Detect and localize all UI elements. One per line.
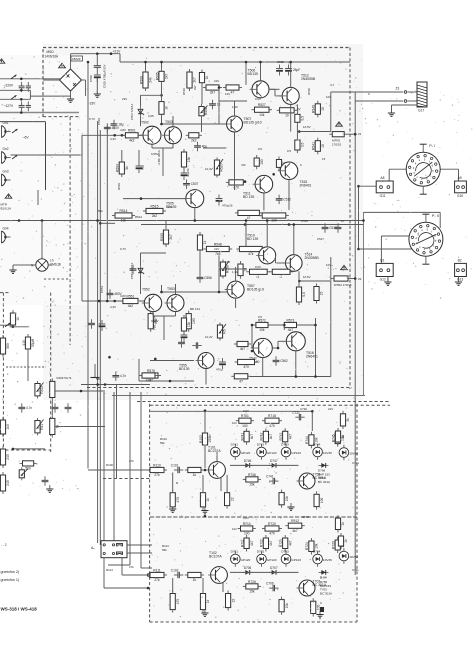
svg-text:G12: G12 <box>380 278 386 282</box>
junction rail2 T514 <box>293 223 296 226</box>
junction osc out 1 <box>80 390 83 393</box>
svg-text:470µ: 470µ <box>216 368 223 372</box>
transistor T505 <box>166 190 204 209</box>
svg-text:C556: C556 <box>204 276 212 280</box>
svg-text:C706: C706 <box>266 582 274 586</box>
label texture 26 <box>326 263 331 267</box>
svg-text:2k2: 2k2 <box>191 139 196 143</box>
label texture 4 <box>151 152 159 156</box>
resistor R528 <box>277 108 298 118</box>
label zener TZK <box>130 103 134 120</box>
label BD 13x <box>190 307 200 311</box>
tap symbol lower left <box>91 364 100 378</box>
warning triangle psu <box>59 63 66 68</box>
wire R102 column top <box>204 411 206 430</box>
wire ch2 low vertical <box>116 385 118 479</box>
svg-text:GP120: GP120 <box>267 558 277 562</box>
wire T506 T512 link <box>269 88 280 90</box>
choke Dl1 50uH <box>22 334 35 352</box>
svg-text:R714: R714 <box>243 522 251 526</box>
svg-text:C507: C507 <box>191 182 199 186</box>
junction rail2 R549 <box>245 219 248 222</box>
svg-text:0,7V: 0,7V <box>89 117 95 121</box>
capacitor C509 electrolytic <box>285 65 300 76</box>
wire ch1 driver link <box>234 160 236 190</box>
wire lamp branch <box>41 221 43 259</box>
svg-text:R573: R573 <box>286 318 294 322</box>
svg-text:C516: C516 <box>301 219 308 223</box>
junction psu rail a <box>96 52 99 55</box>
label note magnetofon 2 <box>1 570 20 574</box>
label texture 6 <box>193 85 197 90</box>
resistor R111 <box>147 568 167 582</box>
svg-text:T503: T503 <box>165 120 173 124</box>
wire T516 drop <box>295 351 297 377</box>
socket DIN input 1 <box>2 121 11 138</box>
capacitor C437 <box>112 372 126 381</box>
label D7xx b <box>320 576 327 580</box>
wire relay feed 4 <box>140 392 142 568</box>
svg-text:R505: R505 <box>155 72 159 80</box>
svg-text:R548: R548 <box>214 242 222 246</box>
label texture 32 <box>98 209 103 213</box>
transistor T557 driver <box>225 281 264 298</box>
junction ch2 low node2 <box>108 356 111 359</box>
svg-text:50µH: 50µH <box>31 338 35 347</box>
resistor R556 <box>197 232 207 253</box>
svg-text:0,65V: 0,65V <box>151 152 159 156</box>
diode D704 <box>313 550 332 567</box>
zener diode C503 <box>138 107 144 117</box>
svg-text:T553: T553 <box>167 287 175 291</box>
wire fuse2 out <box>351 278 355 280</box>
resistor R437 <box>20 461 37 471</box>
svg-text:50µ: 50µ <box>141 165 145 170</box>
junction sw wire a <box>362 219 365 222</box>
junction ch2 output <box>298 280 301 283</box>
wire +21V rail psu <box>71 53 121 55</box>
label lamp N <box>31 264 34 268</box>
resistor R548 <box>203 242 232 256</box>
junction T557 base feed <box>160 291 163 294</box>
wire collector T512 <box>290 104 292 131</box>
diode D743 <box>281 443 301 460</box>
svg-text:2k7: 2k7 <box>193 85 197 90</box>
label texture 44 <box>176 481 178 485</box>
wire fuse out <box>347 133 355 135</box>
junction bus e <box>106 300 109 303</box>
diode D706 <box>243 566 253 575</box>
resistor R523 <box>276 157 286 171</box>
capacitor C567 electrolytic <box>181 331 188 342</box>
label D7xx BAP <box>318 469 326 473</box>
svg-text:0,5: 0,5 <box>301 143 305 148</box>
input selector box top <box>0 121 46 123</box>
transistor T507 driver <box>224 116 262 132</box>
svg-text:R751: R751 <box>241 414 249 418</box>
junction T507 base feed <box>160 123 163 126</box>
label 4.8V b <box>120 294 126 298</box>
resistor R549 <box>236 246 265 256</box>
junction row1 sep <box>204 515 207 518</box>
wire R517 drop <box>245 62 247 85</box>
svg-text:27k: 27k <box>129 459 134 463</box>
wire emitter join ch2 l <box>152 312 154 316</box>
svg-text:7k5: 7k5 <box>215 252 220 256</box>
resistor R415 <box>10 310 20 328</box>
svg-text:10V36: 10V36 <box>349 452 358 456</box>
dash-dot control line <box>6 366 46 368</box>
wire psu cap gnd <box>96 78 98 93</box>
label C551 <box>100 285 104 293</box>
junction ch1 low c <box>194 219 197 222</box>
capacitor C101 <box>171 464 184 474</box>
svg-text:R110: R110 <box>153 463 161 467</box>
svg-text:Pₓ I: Pₓ I <box>429 144 435 148</box>
label BAP153 r2 <box>320 584 331 588</box>
svg-text:BC107A: BC107A <box>209 554 222 558</box>
diode D742 <box>257 443 277 460</box>
capacitor C508 electrolytic <box>276 65 283 76</box>
dashed border oscillator box left <box>2 293 4 450</box>
svg-text:R520: R520 <box>220 163 224 171</box>
transistor T102 <box>208 551 227 583</box>
transistor T555 <box>179 353 214 371</box>
svg-text:27k: 27k <box>154 473 160 477</box>
wire sw1 left drop <box>388 169 390 181</box>
label texture 30 <box>258 315 262 319</box>
wire ch2 low loop h <box>139 380 194 382</box>
svg-text:15k: 15k <box>249 483 255 487</box>
svg-text:0,6V: 0,6V <box>255 97 261 101</box>
svg-text:D-04: D-04 <box>320 576 327 580</box>
svg-text:R555: R555 <box>160 233 164 241</box>
resistor R578 <box>181 315 191 334</box>
label texture 45 <box>232 421 237 425</box>
label C560 value <box>216 368 223 372</box>
svg-text:10n: 10n <box>232 527 237 531</box>
svg-text:C502 4700µF/25V: C502 4700µF/25V <box>103 64 107 88</box>
label lamp Lh <box>50 259 54 263</box>
svg-text:10k: 10k <box>259 113 265 117</box>
resistor R409 <box>50 378 55 400</box>
svg-text:1,3V: 1,3V <box>232 105 238 109</box>
capacitor C422 <box>52 403 59 412</box>
resistor R748 <box>314 491 324 509</box>
junction ch2 low a <box>96 383 99 386</box>
svg-text:C: C <box>300 163 302 167</box>
ground rec row1 <box>287 503 294 510</box>
wire emitter bus <box>152 147 173 149</box>
svg-text:C731: C731 <box>352 461 359 465</box>
svg-text:4,7n: 4,7n <box>120 374 126 378</box>
transistor T753 <box>297 473 327 490</box>
wire zener2 link <box>141 252 167 254</box>
wire osc top link <box>0 324 13 326</box>
svg-text:R111: R111 <box>153 568 161 572</box>
capacitor C512 <box>276 195 291 204</box>
fuse B1A output 2 <box>331 276 351 281</box>
label texture 55 <box>317 237 324 241</box>
label texture 37 <box>300 407 307 411</box>
label 14V b <box>225 260 230 264</box>
svg-text:1: 1 <box>280 275 282 279</box>
wire T506 top <box>260 62 262 81</box>
wire R504 top <box>121 150 123 159</box>
svg-text:Gn3: Gn3 <box>3 170 9 174</box>
wire emitter join right <box>172 144 174 148</box>
svg-text:470: 470 <box>269 532 275 536</box>
wire rail vertical B <box>97 121 99 543</box>
wire T557 emitter down <box>235 298 237 308</box>
svg-text:C102: C102 <box>171 569 179 573</box>
label T753 BC301 <box>318 476 325 480</box>
svg-text:100: 100 <box>242 424 248 428</box>
wire osc mid bus <box>13 448 45 450</box>
wire under T510 <box>219 268 247 270</box>
wire relay down pin <box>121 558 123 575</box>
wire rec row1 input <box>88 469 152 471</box>
junction T510 base 2 <box>218 291 221 294</box>
svg-text:-15V: -15V <box>89 102 97 106</box>
ground rec row2 left <box>201 609 208 616</box>
junction rail R517 <box>245 61 248 64</box>
label I-BC 301A <box>157 150 161 164</box>
label texture 0 <box>89 75 93 82</box>
capacitor C510 electrolytic <box>216 195 223 206</box>
label texture 46 <box>232 527 237 531</box>
svg-text:GP120: GP120 <box>291 451 301 455</box>
label BAP153 r2a <box>320 580 328 584</box>
resistor R109 <box>200 591 210 613</box>
svg-text:Gn2: Gn2 <box>3 147 9 151</box>
wire speaker gnd drop <box>391 105 393 112</box>
label texture 19 <box>241 163 246 167</box>
svg-text:10,4V: 10,4V <box>205 335 213 339</box>
junction psu rail b <box>110 52 113 55</box>
resistor R575 <box>231 374 251 384</box>
svg-text:R515: R515 <box>151 204 159 208</box>
svg-text:C720: C720 <box>300 407 307 411</box>
svg-text:240: 240 <box>6 480 10 486</box>
transistor T552 <box>142 288 162 312</box>
svg-text:10V36: 10V36 <box>349 555 358 559</box>
svg-text:1k0: 1k0 <box>6 424 10 429</box>
capacitor C551 input <box>107 289 123 298</box>
resistor R565 <box>314 284 324 304</box>
transistor T101 <box>206 446 225 479</box>
wire rec top rail <box>150 410 312 412</box>
junction second bus b <box>244 223 247 226</box>
svg-text:~220V: ~220V <box>4 84 14 88</box>
connector G10 <box>455 176 467 198</box>
wire T505 down <box>194 208 196 221</box>
dashed border lower band a <box>137 401 390 403</box>
svg-text:150: 150 <box>260 159 264 165</box>
wire output rise <box>330 92 332 132</box>
svg-text:2k2: 2k2 <box>152 214 157 218</box>
wire emitter join ch2 r <box>175 312 177 317</box>
label texture 23 <box>151 319 159 323</box>
wire speaker hot <box>331 91 403 93</box>
wire mains mid link <box>30 95 60 97</box>
wire ch1 bottom bus <box>88 220 364 222</box>
svg-text:C562: C562 <box>280 359 288 363</box>
svg-text:419: 419 <box>22 340 26 346</box>
wire lamp left <box>20 264 36 266</box>
svg-text:10V36: 10V36 <box>323 558 332 562</box>
junction second bus c <box>288 223 291 226</box>
wire relay out 1 <box>127 544 152 546</box>
resistor R510 <box>187 69 197 91</box>
junction ch1 low a <box>244 180 247 183</box>
svg-text:D703: D703 <box>281 550 289 554</box>
wire rec row2 bus <box>230 571 299 573</box>
socket DIN input 4 <box>2 227 11 244</box>
wire T507 collector up <box>234 101 236 116</box>
wire emitter join left <box>151 144 153 148</box>
svg-text:47: 47 <box>231 91 235 95</box>
svg-text:0,5: 0,5 <box>301 116 305 121</box>
resistor R504 <box>116 159 129 177</box>
svg-text:R540: R540 <box>312 105 316 113</box>
label BC301A r1 <box>318 480 330 484</box>
label texture 52 <box>368 92 370 96</box>
svg-text:2N3055B: 2N3055B <box>305 256 320 260</box>
svg-text:470: 470 <box>176 497 180 503</box>
wire rail left vertical A <box>87 62 89 469</box>
svg-text:10V: 10V <box>326 263 331 267</box>
resistor R731 <box>340 411 350 429</box>
wire C511 link <box>203 147 226 149</box>
svg-text:14V: 14V <box>225 260 230 264</box>
ground G12 <box>384 278 391 285</box>
wire T503 collector up <box>172 116 174 127</box>
label texture 34 <box>168 205 173 209</box>
svg-text:GP120: GP120 <box>267 451 277 455</box>
svg-text:D747: D747 <box>270 459 278 463</box>
label fuse MTR <box>1 203 8 207</box>
svg-text:BC 301A: BC 301A <box>320 591 332 595</box>
junction ch1 low b <box>272 173 275 176</box>
svg-text:R912: R912 <box>291 519 299 523</box>
wire R513 pot link <box>201 85 203 104</box>
resistor R421 left edge <box>0 472 10 494</box>
junction ch2 top link <box>314 324 317 327</box>
dashed border lower band b <box>150 404 390 406</box>
wire lamp gnd drop <box>12 265 14 269</box>
svg-text:1k: 1k <box>193 578 197 582</box>
svg-text:4k7: 4k7 <box>288 540 292 545</box>
wire mains segment vertical <box>29 90 31 99</box>
wire sw2 left link <box>381 235 409 237</box>
svg-text:R742: R742 <box>260 432 264 440</box>
svg-text:1k: 1k <box>344 539 348 543</box>
svg-text:R744: R744 <box>305 436 309 444</box>
svg-text:15: 15 <box>320 292 324 296</box>
wire bus branch <box>100 222 115 224</box>
svg-text:15: 15 <box>321 107 325 111</box>
wire R506 link <box>161 84 163 98</box>
resistor R733 <box>335 428 345 445</box>
capacitor C504 18u <box>111 120 124 129</box>
svg-text:G11: G11 <box>380 194 386 198</box>
wire top link ch2low <box>297 324 316 326</box>
wire relay feed 3 <box>129 392 131 565</box>
resistor R518 <box>181 149 191 170</box>
fuse B1A output 1 <box>329 132 347 137</box>
wire row2 drop b <box>202 578 204 592</box>
ground rec row1 left <box>201 507 208 514</box>
wire ch2 low bus <box>81 384 150 386</box>
svg-text:D741: D741 <box>231 443 239 447</box>
wire pot drop <box>201 118 203 132</box>
capacitor mains filter C4 <box>26 101 31 111</box>
resistor R106 <box>185 467 204 477</box>
capacitor C557 <box>130 265 137 274</box>
junction ch2 low d <box>295 375 298 378</box>
wire T516 base in <box>278 340 285 342</box>
solid border amp block bottom <box>112 395 365 397</box>
svg-text:D746: D746 <box>244 459 252 463</box>
potentiometer R558 <box>220 260 229 279</box>
dashed border oscillator box bottom <box>0 449 51 451</box>
svg-text:56k: 56k <box>96 377 101 381</box>
svg-text:R504: R504 <box>116 164 120 172</box>
ground oscillator <box>46 485 53 492</box>
junction rail t2 <box>144 61 147 64</box>
junction osc b <box>12 448 15 451</box>
junction rec rail main <box>204 409 207 412</box>
ground R103 <box>169 505 176 512</box>
resistor R515 feedback <box>143 204 166 218</box>
switch input select 1 <box>12 129 18 133</box>
label C505 50u <box>141 165 145 170</box>
switch mains contact upper <box>11 75 17 79</box>
svg-text:D701: D701 <box>231 550 239 554</box>
resistor R417 left edge <box>0 417 10 437</box>
svg-text:2N3055B: 2N3055B <box>301 77 316 81</box>
wire to G11 <box>359 185 379 187</box>
label texture 43 <box>162 548 167 552</box>
wire zener2 top <box>140 253 142 266</box>
svg-text:D704: D704 <box>313 550 321 554</box>
zener diode C553 <box>138 266 144 276</box>
junction bus sw2 <box>357 248 360 251</box>
wire mains phase lower <box>0 98 30 100</box>
svg-text:470: 470 <box>243 365 249 369</box>
svg-text:gnetofon 1): gnetofon 1) <box>1 578 20 582</box>
resistor R727 <box>279 597 289 615</box>
label texture 20 <box>300 163 302 167</box>
svg-text:D702: D702 <box>257 550 265 554</box>
svg-text:0,5: 0,5 <box>258 315 262 319</box>
capacitor C515 electrolytic <box>181 169 188 180</box>
svg-text:R503: R503 <box>117 183 121 190</box>
wire diff collector drop <box>161 117 163 124</box>
resistor R563 <box>186 311 196 332</box>
label fuse B1/0.2A <box>1 206 12 210</box>
connector G13 <box>455 258 467 281</box>
label texture 13 <box>326 95 331 99</box>
svg-text:R551: R551 <box>126 294 134 298</box>
junction relay bottom <box>147 587 150 590</box>
label texture 29 <box>300 331 302 335</box>
svg-text:R541: R541 <box>312 142 316 150</box>
wire T507 emitter down <box>234 132 236 142</box>
label 4.8V a <box>120 128 126 132</box>
resistor R562 <box>148 311 158 332</box>
